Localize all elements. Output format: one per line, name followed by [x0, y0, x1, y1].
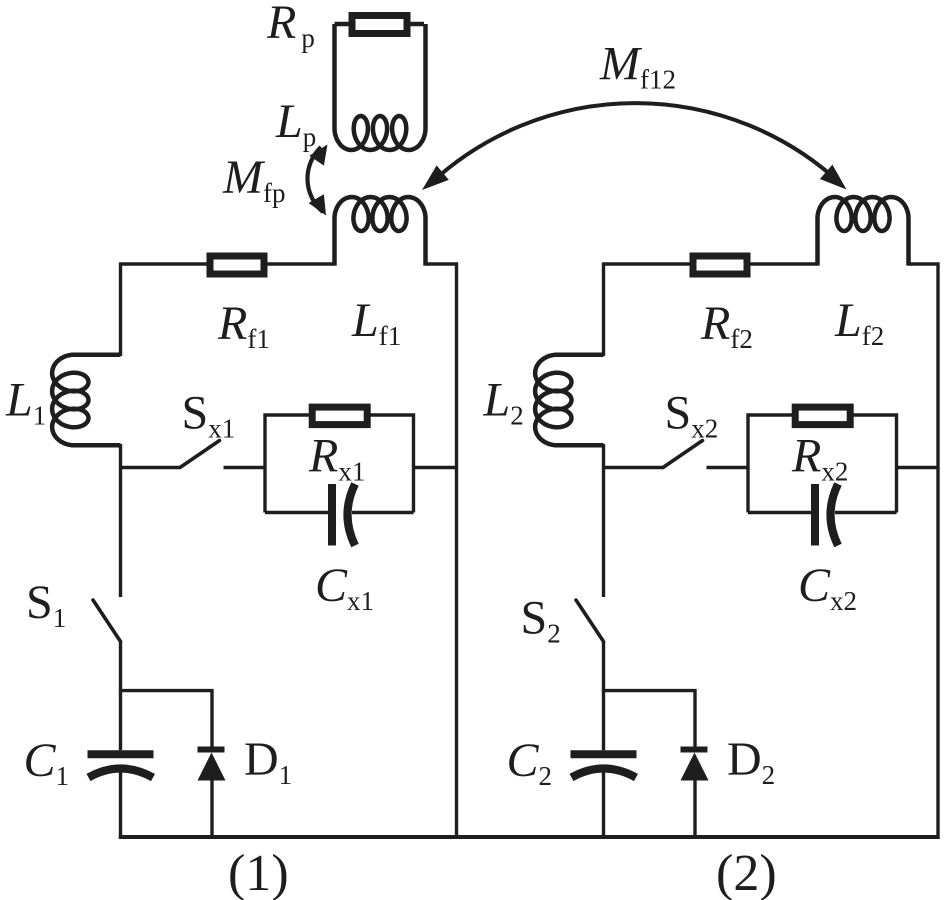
- wire top right jog: [426, 264, 457, 839]
- snubber box R-C parallel: [748, 415, 897, 513]
- wire top right jog: [909, 264, 939, 839]
- wire left vertical upper: [602, 262, 605, 356]
- wire switch to T junction: [602, 642, 605, 751]
- capacitor C1 top plate: [88, 750, 154, 758]
- svg-text:C2: C2: [507, 734, 553, 791]
- svg-text:L1: L1: [5, 374, 46, 431]
- wire left vertical upper: [119, 262, 122, 356]
- svg-text:S2: S2: [521, 592, 561, 649]
- wire left vertical lower: [119, 444, 122, 597]
- svg-text:Sx2: Sx2: [665, 387, 719, 444]
- wire diode to rail: [693, 778, 696, 839]
- wire box to right vertical: [414, 466, 457, 469]
- svg-text:Rp: Rp: [266, 0, 315, 53]
- svg-text:Mf12: Mf12: [599, 38, 676, 95]
- capacitor Cx1 plate: [328, 484, 336, 546]
- svg-text:C1: C1: [24, 734, 70, 791]
- wire capacitor to rail: [602, 771, 605, 839]
- svg-text:Rx2: Rx2: [791, 430, 848, 487]
- resistor Rp: [352, 16, 407, 34]
- svg-text:(2): (2): [716, 845, 777, 900]
- switch Sx2 blade: [663, 441, 703, 468]
- diode D1 triangle: [198, 753, 226, 781]
- svg-text:D1: D1: [244, 733, 292, 790]
- switch S1 blade: [93, 600, 121, 642]
- inductor Lf1: [335, 197, 426, 266]
- svg-text:Lf2: Lf2: [834, 294, 884, 351]
- capacitor C2 top plate: [571, 750, 637, 758]
- svg-text:Lf1: Lf1: [351, 294, 401, 351]
- svg-text:(1): (1): [228, 845, 289, 900]
- diode D2 cathode bar: [681, 747, 708, 753]
- switch S2 blade: [576, 600, 604, 642]
- inductor Lf2: [818, 197, 909, 266]
- resistor Rx2: [795, 407, 850, 425]
- resistor Rf1: [210, 256, 264, 274]
- capacitor Cx2 plate: [811, 484, 819, 546]
- svg-text:Rf2: Rf2: [700, 297, 753, 354]
- switch Sx1 blade: [180, 441, 220, 468]
- capacitor C1 curved plate: [89, 769, 154, 778]
- wire capacitor to rail: [119, 771, 122, 839]
- capacitor Cx1 curved plate: [348, 484, 356, 546]
- resistor Rf2: [693, 256, 747, 274]
- wire left vertical lower: [602, 444, 605, 597]
- switch Sx1 stub right: [224, 466, 266, 469]
- wire T branch to diode: [602, 691, 695, 749]
- svg-text:D2: D2: [727, 733, 775, 790]
- svg-text:Rf1: Rf1: [217, 297, 270, 354]
- wire box to right vertical: [897, 466, 939, 469]
- wire: [335, 22, 425, 26]
- switch Sx2 stub left: [604, 466, 664, 469]
- wire switch to T junction: [119, 642, 122, 751]
- mutual coupling Mfp arrow: [307, 147, 323, 212]
- wire top left segment: [121, 262, 335, 265]
- svg-text:Cx1: Cx1: [315, 559, 374, 616]
- wire bottom rail: [119, 835, 940, 839]
- inductor L1: [52, 355, 120, 446]
- capacitor C2 curved plate: [572, 769, 637, 778]
- diode D2 triangle: [681, 753, 709, 781]
- diode D1 cathode bar: [198, 747, 225, 753]
- inductor Lp: [335, 24, 426, 150]
- resistor Rx1: [312, 407, 367, 425]
- switch Sx1 stub left: [121, 466, 181, 469]
- capacitor Cx2 curved plate: [831, 484, 839, 546]
- switch Sx2 stub right: [707, 466, 749, 469]
- svg-text:Rx1: Rx1: [308, 430, 365, 487]
- svg-text:S1: S1: [26, 576, 66, 633]
- svg-text:Sx1: Sx1: [182, 387, 236, 444]
- svg-text:Cx2: Cx2: [798, 559, 857, 616]
- svg-text:Lp: Lp: [275, 95, 316, 152]
- svg-text:L2: L2: [483, 374, 524, 431]
- mutual coupling Mf12 arrow: [430, 103, 840, 184]
- wire top left segment: [604, 262, 818, 265]
- inductor L2: [535, 355, 603, 446]
- snubber box R-C parallel: [265, 415, 414, 513]
- wire diode to rail: [210, 778, 213, 839]
- wire T branch to diode: [119, 691, 212, 749]
- svg-text:Mfp: Mfp: [222, 151, 285, 208]
